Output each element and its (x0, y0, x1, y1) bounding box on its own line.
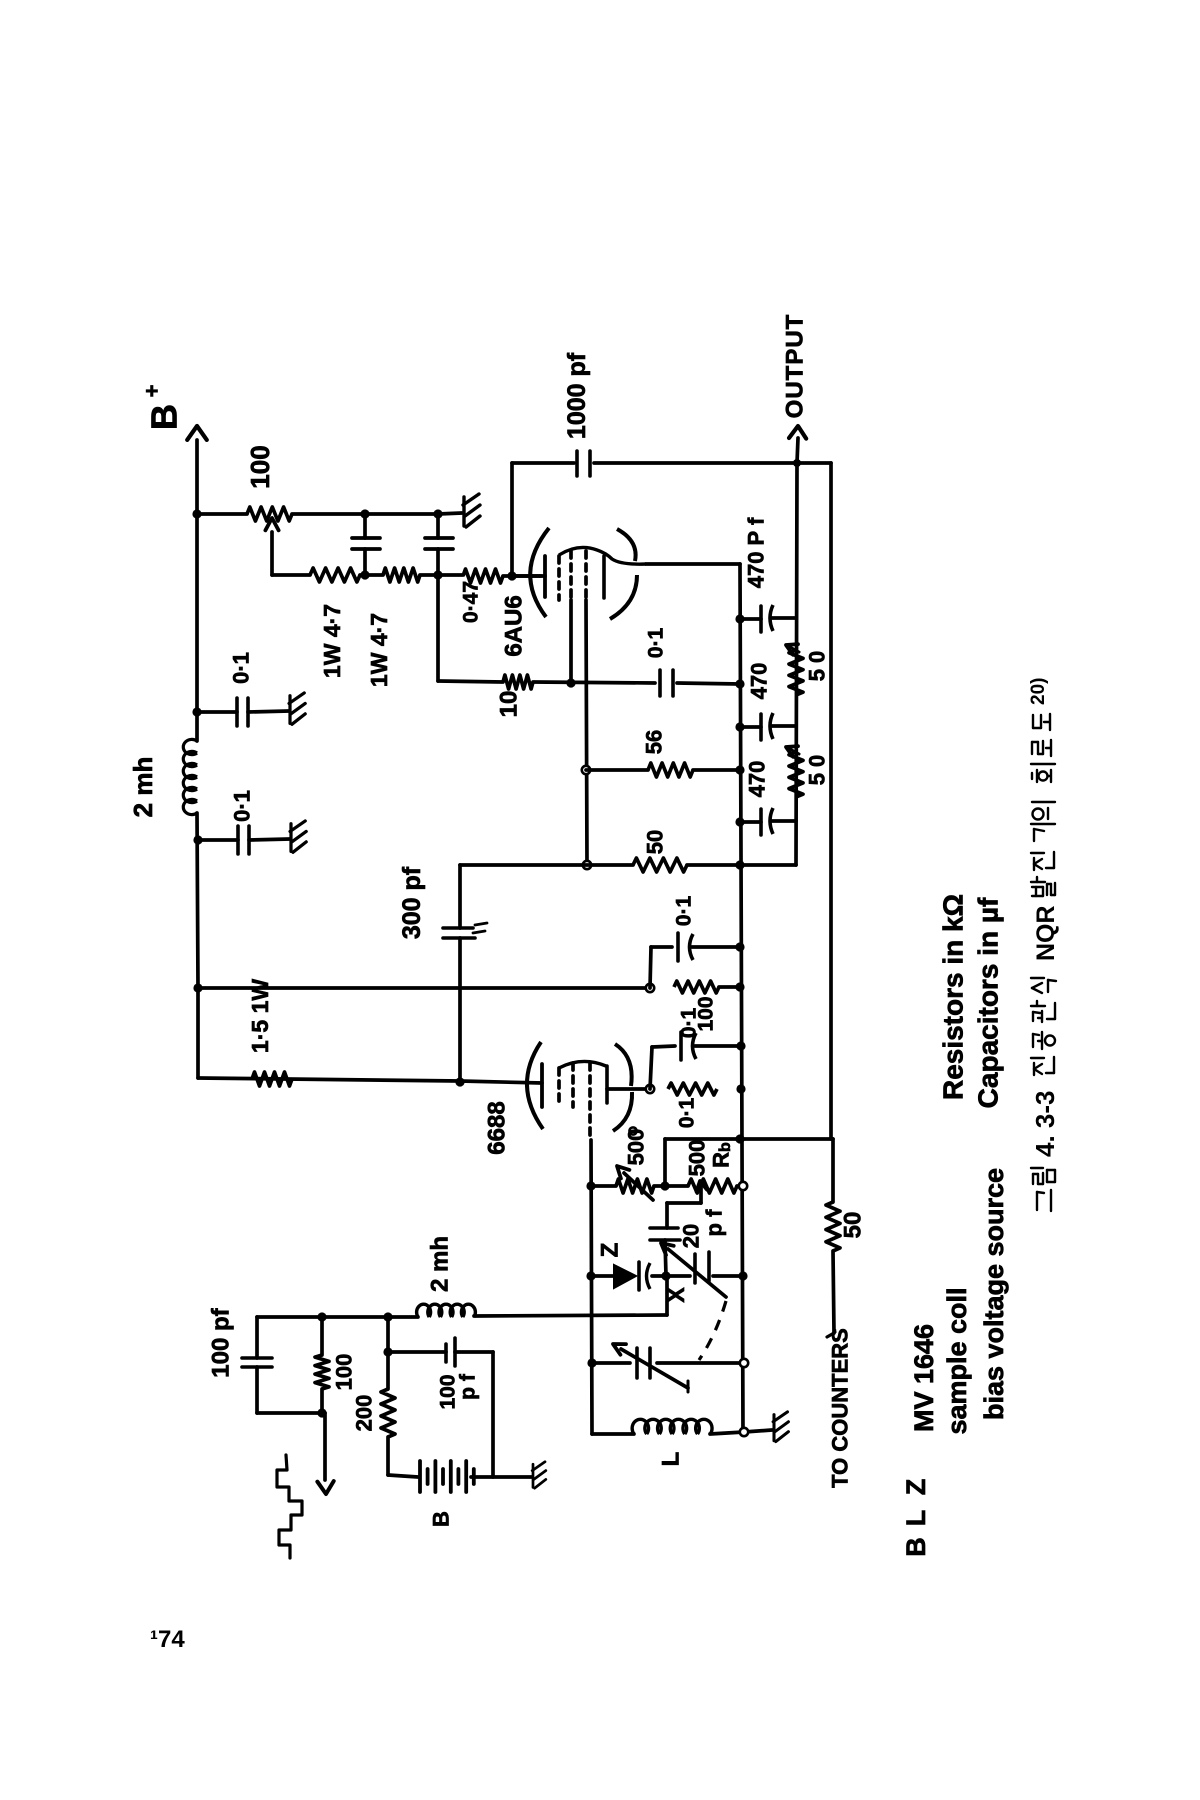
dashed gang link (699, 1301, 726, 1360)
node M (735, 722, 744, 731)
tube U2 grid dashed 2 (588, 1063, 592, 1140)
battery B (418, 1461, 422, 1492)
resistor R5 10 (503, 675, 533, 689)
tube U2 6688 envelope (527, 1042, 543, 1129)
wire bias cap row (388, 1350, 446, 1354)
svg-text:Z: Z (597, 1243, 624, 1258)
wire screen lead tube1 (586, 600, 587, 865)
node Z8 (317, 1408, 326, 1417)
svg-text:1000 pf: 1000 pf (563, 352, 591, 439)
svg-text:2 mh: 2 mh (427, 1236, 454, 1292)
resistor R9 50 pot (789, 752, 803, 797)
wire outer rail right (829, 463, 833, 1139)
svg-text:100: 100 (245, 445, 275, 488)
svg-text:100 pf: 100 pf (208, 1307, 235, 1377)
capacitor C8 470pf (740, 820, 761, 824)
node P (735, 942, 744, 951)
node V (586, 1181, 595, 1190)
caption Korean figure title (1028, 678, 1060, 1211)
svg-text:Capacitors in µf: Capacitors in µf (973, 897, 1004, 1108)
capacitor C5 300pf (443, 926, 473, 930)
node A3 (193, 835, 202, 844)
wire 10k row (436, 575, 440, 681)
wire OUTPUT stub (797, 438, 798, 463)
node A2 (192, 707, 201, 716)
ground (tank) (773, 1412, 788, 1442)
wire screen supply row (198, 986, 650, 990)
node K (455, 1077, 464, 1086)
node N (735, 817, 744, 826)
node Q (735, 982, 744, 991)
capacitor C15 100pf (444, 1344, 448, 1362)
svg-text:300 pf: 300 pf (398, 866, 426, 939)
wire choke row (257, 1315, 418, 1319)
svg-text:5 0: 5 0 (805, 755, 830, 786)
svg-text:MV 1646: MV 1646 (909, 1324, 939, 1432)
svg-text:B: B (901, 1537, 931, 1557)
wire cathode pot row (591, 1184, 616, 1188)
wire lower filter rail (272, 573, 310, 577)
resistor R4 0.47 (463, 569, 503, 583)
node L (735, 614, 744, 623)
pot tap arrow R1 (270, 532, 274, 575)
node Z7 (383, 1312, 392, 1321)
resistor R3 4.7 1W (383, 568, 420, 582)
capacitor C16 0.1 (235, 698, 239, 726)
resistor R7 50 (633, 858, 687, 872)
node X1 (ring) (739, 1182, 747, 1190)
node OUT (793, 459, 801, 467)
wire tank bottom (592, 1432, 634, 1436)
svg-text:1·5 1W: 1·5 1W (247, 979, 273, 1053)
node Z5 (ring) (740, 1428, 748, 1436)
svg-text:0·47: 0·47 (460, 581, 483, 623)
wire grid row tube2 (198, 1078, 460, 1081)
svg-text:10: 10 (496, 691, 523, 718)
svg-text:+: + (140, 385, 165, 398)
node A (B+ rail top) (192, 509, 201, 518)
wire output coupling top (512, 461, 574, 465)
diode Z MV1646 varactor (614, 1265, 636, 1288)
resistor R10 100 (674, 981, 719, 993)
ground (battery) (532, 1462, 546, 1488)
svg-text:50: 50 (643, 830, 668, 854)
svg-text:p f: p f (457, 1373, 480, 1400)
svg-text:sample coll: sample coll (942, 1287, 972, 1434)
capacitor C11 20pf trimmer (650, 1226, 678, 1230)
svg-text:500: 500 (624, 1129, 649, 1166)
wire varactor row (591, 1274, 614, 1278)
svg-text:200: 200 (352, 1395, 377, 1432)
svg-text:0·1: 0·1 (229, 652, 254, 684)
node J (735, 860, 744, 869)
node U (735, 1134, 744, 1143)
wire 100pf branch (255, 1317, 259, 1358)
node Z4 (ring) (740, 1359, 748, 1367)
node W (660, 1181, 669, 1190)
wire plate cap stub (650, 1047, 652, 1089)
svg-text:¹74: ¹74 (150, 1626, 185, 1653)
capacitor C4 0.1 (row) (658, 670, 662, 696)
wire screen cap stub (650, 947, 651, 988)
tube U1 plate bar (602, 556, 606, 598)
svg-text:OUTPUT: OUTPUT (782, 314, 809, 419)
svg-text:B: B (144, 404, 185, 430)
node E (566, 678, 575, 687)
wire tank cap row (592, 1361, 630, 1365)
resistor R15 500 Rb pot (688, 1179, 737, 1193)
svg-text:100: 100 (332, 1354, 357, 1391)
staircase sweep symbol (277, 1455, 302, 1558)
wire cathode lead 1 tube1 (569, 600, 573, 683)
tube U2 pin circle (629, 1127, 636, 1134)
svg-text:L: L (658, 1452, 685, 1467)
node Y (586, 1271, 595, 1280)
svg-text:p f: p f (702, 1209, 727, 1237)
svg-text:50: 50 (840, 1212, 867, 1239)
wire 56k row (586, 768, 648, 772)
capacitor C13 tank variable (635, 1348, 639, 1378)
resistor R11 1.5 1W (252, 1072, 292, 1086)
node A4 (193, 983, 202, 992)
svg-text:20: 20 (679, 1224, 704, 1248)
node S (736, 1084, 745, 1093)
capacitor C12 X crystal-trimmer (693, 1254, 697, 1283)
svg-text:6688: 6688 (484, 1101, 511, 1154)
svg-text:L: L (901, 1510, 931, 1527)
tube U2 plate bar (605, 1066, 609, 1103)
node B (360, 509, 369, 518)
svg-text:2 mh: 2 mh (128, 757, 158, 818)
resistor R17 200 (386, 1317, 390, 1389)
wire B+ supply line with arrow (195, 440, 199, 514)
inductor L sample coil (632, 1419, 648, 1434)
tube U1 grid dashed 1 (569, 551, 573, 600)
svg-text:470: 470 (745, 761, 770, 798)
wire plate tube2 (607, 1087, 650, 1091)
inductor L2 2mh (417, 1304, 431, 1317)
svg-text:470 P f: 470 P f (744, 517, 769, 588)
tube U1 inner box top (559, 547, 646, 564)
capacitor C14 100pf (242, 1356, 272, 1360)
resistor R13 50 (counter) (826, 1202, 840, 1251)
tube U1 6AU6 envelope (530, 528, 549, 617)
node C (433, 509, 442, 518)
svg-text:5 0: 5 0 (805, 651, 830, 682)
svg-text:0·1: 0·1 (676, 1098, 699, 1129)
wire bias arrow (323, 1413, 327, 1480)
capacitor C10 0.1 (679, 1032, 683, 1060)
wire left rail lower (197, 813, 198, 988)
ground (bypass 2) (290, 821, 306, 852)
wire cathode rail tube2 (591, 1140, 592, 1434)
pot wiper R15 (697, 1181, 707, 1191)
wire counter row (665, 1137, 833, 1141)
tube U2 grid bar (540, 1064, 544, 1107)
svg-text:0·1: 0·1 (645, 628, 668, 659)
resistor R2 4.7 1W (310, 568, 360, 582)
wire grid riser tube1 (510, 463, 514, 576)
svg-text:6AU6: 6AU6 (501, 595, 528, 656)
capacitor C6 470pf (740, 617, 761, 621)
ground (top filter) (463, 494, 480, 527)
wire bypass row 1 (197, 710, 237, 714)
wire divider rail (470pf column) (796, 463, 797, 865)
node R (ring) (646, 1085, 654, 1093)
tube U2 inner box top (559, 1061, 606, 1068)
capacitor C3 1000pf (575, 451, 579, 476)
capacitor C1 (filter) (363, 514, 367, 538)
svg-text:0·1: 0·1 (673, 896, 696, 927)
pot arrow R14 (624, 1173, 653, 1200)
resistor R14 500 pot (616, 1179, 654, 1193)
wire grid lead tube1 (512, 574, 545, 578)
svg-text:TO COUNTERS: TO COUNTERS (828, 1328, 853, 1488)
svg-text:4. 3-3: 4. 3-3 (1030, 1091, 1060, 1158)
svg-text:0·1: 0·1 (230, 790, 255, 822)
svg-text:B: B (429, 1511, 454, 1527)
wire feedback branch (458, 865, 462, 928)
svg-text:20): 20) (1028, 678, 1049, 705)
wire plate rail (main right) (740, 564, 743, 1435)
capacitor C7 470pf (740, 725, 761, 729)
node F (ring) (582, 766, 590, 774)
wire counter drop (831, 1139, 835, 1202)
tube U2 grid dashed 1 (571, 1063, 575, 1107)
capacitor C2 (filter) (436, 514, 440, 538)
svg-text:470: 470 (747, 663, 772, 700)
node G (ring) (583, 861, 591, 869)
arrow variable C12 (668, 1249, 726, 1297)
svg-text:56: 56 (642, 730, 667, 754)
resistor R1 100 (pot) (247, 507, 292, 521)
node I (735, 765, 744, 774)
node T (736, 1041, 745, 1050)
wire battery out (471, 1475, 532, 1479)
tube U1 grid bar (543, 556, 547, 597)
svg-text:Resistors in kΩ: Resistors in kΩ (938, 894, 969, 1100)
node Z9 (383, 1347, 392, 1356)
resistor R6 56 (648, 763, 693, 777)
svg-text:1W 4·7: 1W 4·7 (366, 613, 392, 687)
wire 50 row (460, 863, 633, 867)
capacitor C9 0.1 (676, 933, 680, 961)
arrow variable C13 (621, 1349, 688, 1388)
svg-text:1W 4·7: 1W 4·7 (319, 604, 345, 678)
tube U2 inner left dashed (557, 1068, 561, 1107)
capacitor C17 0.1 (236, 826, 240, 854)
wire plate tube1 to rail (646, 562, 740, 566)
resistor R8 50 pot (789, 650, 803, 695)
wire left rail upper (195, 514, 199, 741)
wire top filter rail (197, 512, 247, 516)
node Z6 (317, 1312, 326, 1321)
resistor R16 100 (320, 1317, 324, 1355)
node Z3 (587, 1358, 596, 1367)
resistor R12 0.1 (668, 1083, 717, 1095)
ground (bypass 1) (289, 693, 305, 724)
tube U1 inner left dashed (557, 556, 561, 600)
tube U1 grid dashed 2 (584, 551, 588, 600)
inductor L3 2mh choke (rail) (183, 739, 197, 754)
svg-text:Z: Z (901, 1479, 931, 1496)
node D (grid tube1) (507, 571, 516, 580)
node H (735, 679, 744, 688)
node Z1 (661, 1271, 670, 1280)
node Z2 (738, 1271, 747, 1280)
svg-text:0·1: 0·1 (678, 1008, 701, 1039)
wire bypass row 2 (198, 838, 238, 842)
node O (ring) (646, 984, 654, 992)
svg-text:bias voltage source: bias voltage source (979, 1168, 1009, 1420)
svg-text:500: 500 (685, 1140, 710, 1177)
svg-text:NQR: NQR (1032, 905, 1060, 961)
